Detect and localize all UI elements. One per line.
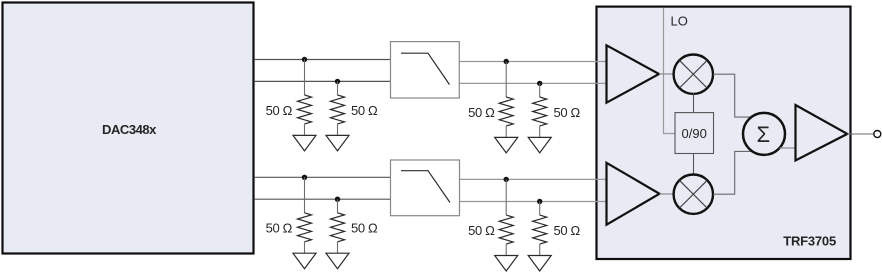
resistor R2 50 ohm termination on I- — [337, 81, 339, 95]
wire A1 output to mixer M1 — [659, 73, 674, 75]
wire Q+ from FL2 to TRF3705 amp A2 — [460, 178, 606, 180]
ground below R8 — [528, 256, 551, 272]
wire mixer M2 output to summer S1 — [713, 151, 752, 194]
junction on I+ wire — [504, 59, 509, 64]
junction on Q- wire — [537, 199, 542, 204]
wire mixer M1 output to summer S1 — [713, 74, 753, 117]
wire RF output — [847, 133, 874, 135]
IC U2 TRF3705 block — [597, 7, 851, 259]
ground below R5 — [293, 253, 316, 269]
low-pass filter FL2 box — [391, 160, 460, 216]
low-pass response symbol in FL1 — [401, 53, 450, 84]
svg-text:50 Ω: 50 Ω — [554, 223, 581, 238]
resistor R5 50 ohm termination on Q+ — [304, 177, 306, 213]
resistor R1 50 ohm termination on I+ — [304, 60, 306, 96]
IC U1 DAC348x block — [3, 3, 254, 254]
svg-text:50 Ω: 50 Ω — [554, 105, 581, 120]
low-pass response symbol in FL2 — [401, 171, 450, 203]
mixer M1 I channel — [674, 54, 713, 93]
RF output pin terminal — [874, 131, 881, 138]
junction on I- wire — [335, 79, 340, 84]
ground below R1 — [293, 135, 316, 151]
phase splitter 0/90 box — [675, 113, 714, 154]
low-pass filter FL1 box — [391, 42, 460, 98]
svg-text:LO: LO — [671, 14, 688, 29]
svg-text:Σ: Σ — [756, 122, 770, 147]
svg-text:50 Ω: 50 Ω — [351, 103, 378, 118]
ground below R3 — [495, 137, 518, 153]
op-amp A2 input buffer Q channel — [607, 163, 660, 225]
resistor R3 50 ohm termination on I+ — [505, 62, 507, 98]
ground below R6 — [326, 253, 349, 269]
wire A2 output to mixer M2 — [660, 193, 675, 195]
svg-text:50 Ω: 50 Ω — [468, 105, 495, 120]
mixer M2 Q channel — [674, 175, 713, 214]
op-amp A3 output amplifier — [796, 105, 848, 161]
wire summer S1 to output amp A3 — [780, 147, 796, 149]
wire Q- from FL2 to TRF3705 amp A2 — [460, 201, 606, 203]
svg-text:0/90: 0/90 — [682, 126, 707, 141]
resistor R8 50 ohm termination on Q- — [539, 202, 541, 216]
svg-text:50 Ω: 50 Ω — [468, 223, 495, 238]
wire Q+ from DAC348x to filter FL2 — [254, 176, 391, 178]
svg-text:50 Ω: 50 Ω — [351, 221, 378, 236]
summer S1 — [743, 113, 785, 155]
svg-text:50 Ω: 50 Ω — [266, 103, 293, 118]
resistor R7 50 ohm termination on Q+ — [505, 179, 507, 215]
wire I- from FL1 to TRF3705 amp A1 — [459, 82, 606, 84]
junction on I- wire — [537, 81, 542, 86]
wire mixer M1 LO port to phase splitter — [693, 94, 695, 113]
ground below R4 — [528, 137, 551, 153]
svg-text:50 Ω: 50 Ω — [266, 221, 293, 236]
wire I- from DAC348x to filter FL1 — [254, 80, 391, 82]
resistor R4 50 ohm termination on I- — [539, 83, 541, 97]
junction on Q- wire — [335, 197, 340, 202]
junction on Q+ wire — [504, 177, 509, 182]
junction on I+ wire — [302, 57, 307, 62]
wire I+ from DAC348x to filter FL1 — [254, 59, 391, 61]
junction on Q+ wire — [302, 175, 307, 180]
svg-text:DAC348x: DAC348x — [102, 122, 157, 137]
wire Q- from DAC348x to filter FL2 — [254, 198, 391, 200]
op-amp A1 input buffer I channel — [607, 45, 660, 102]
wire phase splitter to mixer M2 LO port — [693, 154, 695, 176]
ground below R7 — [495, 256, 518, 272]
wire I+ from FL1 to TRF3705 amp A1 — [459, 61, 606, 63]
svg-text:TRF3705: TRF3705 — [783, 233, 836, 248]
resistor R6 50 ohm termination on Q- — [337, 199, 339, 213]
ground below R2 — [326, 135, 349, 151]
net LO input line into TRF3705 — [664, 8, 676, 134]
